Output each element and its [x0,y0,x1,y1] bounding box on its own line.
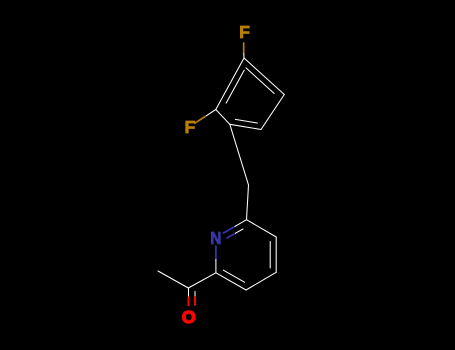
ethylene chain bond V4-Cb (straight CH2-CH2) [230,124,249,185]
carbonyl C=O second line red half [194,297,196,305]
bond C1-F1 white half [243,54,245,58]
chain bond Cb-C6 [247,185,249,220]
pyridine bond N-C2 white half [215,260,217,273]
benzene ring edge V1-V2-V3 (left, straight) [216,58,244,110]
svg-text:O: O [182,307,196,327]
pyridine C5=C4 double bond inner line [269,242,271,269]
svg-text:F: F [184,117,195,137]
acetyl bond C2-Cc [188,273,216,288]
carbonyl C=O second line white half [194,292,196,298]
svg-text:N: N [210,228,221,248]
pyridine bond N=C6 blue half [224,226,236,233]
svg-text:F: F [239,22,250,42]
bond C1-F1 (yellow, to top fluorine) [243,43,245,54]
carbonyl C=O main line white half [188,288,190,297]
benzene ring edge V3-V4 [216,110,230,125]
bond C3-F2 yellow half [195,116,206,123]
pyridine N=C6 inner line white half [236,229,244,233]
bond C3-F2 white half [205,110,216,117]
pyridine N=C6 inner line blue half [227,233,236,238]
pyridine bond C5-C4 [275,237,277,272]
pyridine bond C3-C2 [216,273,246,290]
acetyl bond Cc-CH3 (methyl) [158,271,188,288]
benzene ring edge V6-V1 (upper right) [244,58,284,95]
pyridine bond C4-C3 [246,272,276,290]
pyridine bond C6-C5 [247,220,277,237]
pyridine bond N=C6 white half [235,220,247,227]
benzene ring edge V5-V6 (right) [261,95,284,130]
benzene double bond inner line (upper right edge) [246,68,274,94]
benzene double bond inner line (left edge) [226,70,244,103]
benzene ring edge V4-V5 (bottom) [230,124,261,129]
carbonyl C=O main line red half [188,297,190,305]
pyridine bond N-C2 blue half [215,246,217,260]
pyridine C3=C2 double bond inner line [223,270,244,282]
benzene double bond inner line (bottom edge) [235,119,257,123]
